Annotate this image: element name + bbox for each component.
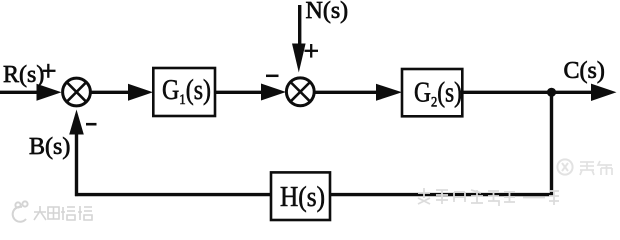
wire feedback bottom right segment [330,193,553,196]
watermark faint text middle [418,188,559,206]
wire G1 to S2 [215,91,263,94]
arrowhead into summing junction S1 [37,84,62,101]
node junction dot [547,88,556,97]
summing junction S1 [63,78,91,106]
wire G2 to output [462,91,593,94]
minus sign at S2 left input [266,75,279,78]
block H [271,172,330,220]
wire S2 to G2 [315,91,380,94]
minus sign at S1 bottom input [86,123,97,126]
wire S1 to G1 [91,91,131,94]
summing junction S2 [286,78,314,106]
svg-text:B(s): B(s) [29,134,70,160]
wire N(s) vertical [298,5,301,48]
svg-text:H(s): H(s) [280,182,325,213]
wire feedback vertical left [75,133,78,196]
block G1 [153,68,215,116]
wire input R(s) horizontal [0,91,40,94]
svg-text:G2(s): G2(s) [414,78,462,111]
svg-text:R(s): R(s) [3,62,44,88]
svg-text:G1(s): G1(s) [162,75,211,108]
watermark text bottom-left [34,206,92,220]
arrowhead feedback into S1 [69,110,84,135]
arrowhead into summing junction S2 [261,84,286,101]
arrowhead output C(s) [591,84,617,101]
arrowhead N(s) into S2 [292,44,306,73]
block G2 [402,69,462,116]
svg-text:C(s): C(s) [564,58,605,84]
svg-text:N(s): N(s) [306,0,349,24]
wire feedback vertical right [550,92,553,196]
arrowhead into block G1 [128,84,153,101]
watermark logo bottom-left [13,201,28,221]
plus sign at S2 top input [305,44,319,58]
wire feedback bottom left segment [75,193,271,196]
arrowhead into block G2 [376,84,402,101]
watermark text right [580,161,612,175]
watermark logo right [557,159,572,174]
plus sign at S1 input [43,64,56,78]
